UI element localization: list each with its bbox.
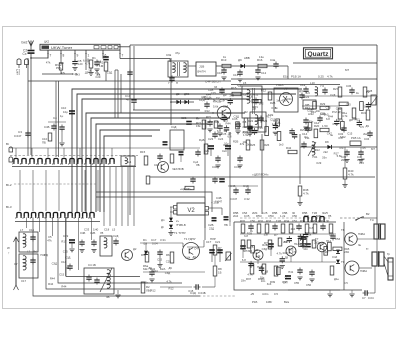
transistor T1 bbox=[183, 243, 200, 260]
coil L5k box bbox=[100, 236, 112, 256]
svg-text:R2B: R2B bbox=[304, 126, 310, 130]
resistor R53 mid bbox=[312, 240, 316, 248]
svg-text:Bt-2: Bt-2 bbox=[6, 183, 12, 187]
resistor R2L left edge bbox=[141, 282, 145, 293]
switch S2 contact 8 bbox=[68, 213, 72, 217]
svg-text:33n: 33n bbox=[322, 155, 327, 159]
carpet part bbox=[247, 125, 252, 127]
speaker Gr bbox=[388, 258, 393, 280]
svg-text:C3Д: C3Д bbox=[336, 107, 342, 111]
svg-text:10n: 10n bbox=[260, 275, 265, 279]
capacitor CA10 bbox=[320, 225, 325, 227]
svg-text:L7: L7 bbox=[20, 228, 24, 232]
svg-text:3n3: 3n3 bbox=[279, 142, 284, 146]
svg-text:R44: R44 bbox=[153, 269, 159, 273]
svg-text:ПЛР: ПЛР bbox=[210, 237, 216, 241]
resistor R51 mid bbox=[247, 240, 251, 248]
svg-text:ЦК2: ЦК2 bbox=[44, 40, 50, 44]
svg-text:Б2А: Б2А bbox=[160, 267, 165, 271]
svg-text:4.7k: 4.7k bbox=[235, 123, 241, 127]
capacitor C11 with ground bbox=[237, 71, 242, 73]
transistor T6 bbox=[286, 246, 296, 256]
svg-text:Quartz: Quartz bbox=[308, 51, 330, 58]
svg-text:Tr: Tr bbox=[366, 247, 369, 251]
svg-text:C2Б: C2Б bbox=[90, 231, 96, 235]
svg-text:C15: C15 bbox=[59, 61, 65, 65]
svg-text:R44: R44 bbox=[61, 285, 67, 289]
svg-text:C15: C15 bbox=[95, 63, 101, 67]
svg-text:-25: -25 bbox=[250, 292, 255, 296]
svg-text:R12: R12 bbox=[151, 288, 157, 292]
band bus wire 8 bbox=[104, 136, 152, 212]
V2 pin squares left bbox=[174, 206, 178, 210]
svg-text:C16: C16 bbox=[29, 228, 35, 232]
wire T2 base bbox=[195, 112, 217, 114]
resistor R19 bbox=[268, 92, 272, 100]
resistor R1e bbox=[338, 108, 342, 119]
svg-text:R12: R12 bbox=[355, 118, 361, 122]
svg-text:ЧЕХЛОВ: ЧЕХЛОВ bbox=[172, 167, 184, 171]
svg-text:C47: C47 bbox=[338, 136, 344, 140]
dashed rail Bt-2 bbox=[14, 183, 96, 185]
battery Bt terminal 2 bbox=[9, 157, 13, 162]
svg-text:C47: C47 bbox=[283, 280, 289, 284]
svg-text:UKW-Tuner: UKW-Tuner bbox=[51, 45, 73, 50]
resistor R25 R26 bottom of IF bbox=[246, 140, 250, 150]
jack X2 bbox=[25, 59, 29, 65]
svg-text:R36: R36 bbox=[318, 219, 324, 223]
carpet part bbox=[341, 122, 345, 130]
svg-text:C29: C29 bbox=[166, 260, 172, 264]
inductor L4 right of row1 bbox=[121, 156, 135, 166]
switch S1 contact 1 bbox=[14, 159, 18, 163]
svg-text:C4: C4 bbox=[53, 116, 57, 120]
svg-text:33n: 33n bbox=[241, 279, 246, 283]
svg-text:0.047: 0.047 bbox=[230, 197, 238, 201]
svg-text:C50: C50 bbox=[292, 214, 298, 218]
component row y180: capacitor 2 bbox=[212, 178, 217, 180]
svg-text:5.6k: 5.6k bbox=[185, 256, 191, 260]
wire volume route 3 bbox=[129, 160, 131, 215]
switch S2 contact 6 bbox=[53, 213, 57, 217]
carpet part bbox=[333, 247, 342, 250]
svg-text:П41: П41 bbox=[288, 270, 294, 274]
resistor R40 bbox=[344, 147, 346, 168]
svg-text:Д9: Д9 bbox=[285, 274, 289, 278]
svg-text:C3Д: C3Д bbox=[307, 109, 313, 113]
svg-text:C47: C47 bbox=[208, 120, 214, 124]
switch S1 contact 13 bbox=[110, 159, 114, 163]
svg-text:R27: R27 bbox=[333, 87, 339, 91]
svg-text:Д9: Д9 bbox=[192, 255, 196, 259]
capacitor C21b bbox=[219, 89, 224, 91]
switch S1 contact 12 bbox=[102, 159, 106, 163]
band bus wire 1 bbox=[72, 89, 302, 212]
switch row2 riser wires bbox=[19, 170, 21, 211]
diode D1e D1f bbox=[336, 250, 340, 254]
tuner block A1 bbox=[40, 44, 120, 50]
svg-text:47k: 47k bbox=[47, 238, 52, 242]
svg-text:C12: C12 bbox=[261, 71, 267, 75]
capacitor C13 mid left bbox=[131, 99, 136, 101]
svg-text:ДЧ: ДЧ bbox=[299, 89, 303, 93]
dashed battery rail bottom bbox=[140, 295, 236, 297]
capacitor C24 bbox=[212, 133, 217, 135]
svg-text:10Вт: 10Вт bbox=[266, 300, 273, 304]
svg-text:D8: D8 bbox=[325, 140, 329, 144]
capacitor C52 dark bbox=[268, 243, 274, 245]
band bus wire 7 bbox=[100, 130, 160, 212]
svg-text:47k: 47k bbox=[61, 71, 66, 75]
svg-text:22Д: 22Д bbox=[209, 227, 214, 231]
svg-text:R33: R33 bbox=[266, 219, 272, 223]
svg-text:C2B: C2B bbox=[226, 111, 232, 115]
svg-text:C52: C52 bbox=[292, 219, 298, 223]
svg-text:C15: C15 bbox=[157, 257, 163, 261]
svg-text:C29: C29 bbox=[219, 98, 225, 102]
svg-text:R?d: R?d bbox=[240, 219, 246, 223]
carpet part bbox=[236, 122, 240, 129]
wire bottom route 4 bbox=[46, 218, 140, 290]
svg-text:5.6k: 5.6k bbox=[213, 105, 219, 109]
diode D7 bbox=[169, 225, 173, 229]
switch row2 lower wires bbox=[26, 218, 28, 229]
svg-text:3н: 3н bbox=[358, 243, 362, 247]
svg-text:0.25: 0.25 bbox=[318, 75, 324, 79]
svg-text:6.8: 6.8 bbox=[83, 58, 87, 62]
capacitor C18 mid bbox=[157, 155, 162, 157]
svg-text:2+: 2+ bbox=[176, 219, 180, 223]
svg-text:C4a: C4a bbox=[270, 58, 276, 62]
svg-text:L5: L5 bbox=[112, 228, 116, 232]
svg-text:PPL: PPL bbox=[56, 66, 62, 70]
svg-text:4.7k: 4.7k bbox=[277, 251, 283, 255]
switch S1 contact 2 bbox=[22, 159, 26, 163]
jack X1 bbox=[17, 59, 21, 65]
svg-text:10μ: 10μ bbox=[63, 110, 68, 114]
svg-text:↑: ↑ bbox=[8, 251, 10, 255]
svg-text:АВВ: АВВ bbox=[244, 56, 250, 60]
resistor RA9 bbox=[313, 224, 317, 233]
carpet part bbox=[247, 127, 252, 129]
svg-text:T7: T7 bbox=[315, 237, 319, 241]
resistor R8 bbox=[213, 266, 217, 276]
band bus wire 2 bbox=[77, 94, 296, 212]
ground output 1 bbox=[329, 290, 331, 293]
capacitor C34 right bbox=[367, 132, 372, 134]
carpet part bbox=[259, 267, 264, 269]
svg-text:7.6: 7.6 bbox=[320, 84, 324, 88]
svg-text:C7: C7 bbox=[362, 296, 366, 300]
switch row1 riser wires bbox=[15, 148, 17, 158]
right vertical bus x377 bbox=[376, 45, 378, 225]
svg-text:23Ω: 23Ω bbox=[344, 250, 349, 254]
capacitor C9 under transformer bbox=[169, 77, 174, 79]
svg-text:C55: C55 bbox=[294, 281, 300, 285]
capacitor C7 output bbox=[364, 290, 366, 295]
svg-text:T1B: T1B bbox=[276, 219, 281, 223]
capacitor C47b electrolytic bbox=[285, 275, 291, 277]
svg-text:4.0m: 4.0m bbox=[262, 292, 269, 296]
carpet part bbox=[214, 121, 218, 128]
svg-text:1: 1 bbox=[88, 54, 90, 58]
svg-text:6.8: 6.8 bbox=[309, 226, 313, 230]
wire transformer to J1B bbox=[188, 65, 196, 67]
svg-text:C4F BB LH: C4F BB LH bbox=[205, 80, 220, 84]
svg-text:6.8: 6.8 bbox=[242, 258, 246, 262]
resistor R16 bbox=[258, 64, 267, 67]
svg-text:ЛБ: ЛБ bbox=[196, 163, 200, 167]
pot P2 bbox=[371, 95, 376, 105]
svg-text:4Б: 4Б bbox=[106, 295, 110, 299]
svg-text:1.2k: 1.2k bbox=[280, 214, 286, 218]
capacitor C2B top of mixer bbox=[186, 121, 192, 123]
svg-text:+ 21В: + 21В bbox=[211, 201, 219, 205]
svg-text:C30: C30 bbox=[212, 165, 218, 169]
svg-text:B2: B2 bbox=[366, 212, 370, 216]
svg-text:C3Д: C3Д bbox=[223, 105, 229, 109]
svg-text:C15: C15 bbox=[346, 102, 352, 106]
carpet part bbox=[280, 258, 285, 260]
capacitor C30 C31 ground row bbox=[215, 157, 220, 159]
svg-text:R5Я: R5Я bbox=[256, 214, 262, 218]
capacitor C5E dark bbox=[305, 243, 311, 245]
AF block border bbox=[234, 222, 340, 290]
capacitor CA7 bbox=[296, 225, 301, 227]
svg-text:В2а: В2а bbox=[284, 300, 289, 304]
wire top right row bbox=[216, 65, 288, 67]
svg-text:0.25: 0.25 bbox=[221, 132, 227, 136]
switch S2 contact 7 bbox=[61, 213, 65, 217]
svg-text:R17: R17 bbox=[266, 114, 272, 118]
svg-text:C15: C15 bbox=[359, 161, 365, 165]
svg-text:C15: C15 bbox=[326, 105, 332, 109]
capacitor C53 bbox=[330, 235, 335, 237]
svg-text:Д9: Д9 bbox=[285, 256, 289, 260]
switch S1 contact 8 bbox=[70, 159, 74, 163]
carpet part bbox=[366, 103, 371, 105]
svg-text:M7: M7 bbox=[345, 68, 349, 72]
capacitor C5B dark bbox=[240, 245, 246, 247]
svg-text:R2B: R2B bbox=[270, 101, 276, 105]
svg-text:1Б: 1Б bbox=[218, 271, 222, 275]
resistor RA3 bbox=[265, 224, 269, 233]
svg-text:C15: C15 bbox=[223, 118, 229, 122]
capacitor C12b bbox=[67, 265, 72, 267]
resistor RA2 bbox=[257, 224, 261, 233]
svg-text:10: 10 bbox=[36, 162, 40, 166]
svg-text:120: 120 bbox=[253, 248, 258, 252]
long vertical x230 bbox=[229, 132, 231, 222]
switch row2 lower rail bbox=[15, 221, 100, 223]
wire C19 rail bbox=[160, 286, 192, 288]
svg-text:2k2: 2k2 bbox=[242, 125, 247, 129]
svg-text:Д9: Д9 bbox=[223, 93, 227, 97]
svg-text:R1: R1 bbox=[92, 56, 96, 60]
switch B2 output bbox=[356, 217, 362, 220]
svg-text:R20: R20 bbox=[314, 124, 320, 128]
svg-text:П41: П41 bbox=[257, 265, 263, 269]
svg-text:C1a: C1a bbox=[300, 83, 306, 87]
carpet part bbox=[248, 262, 253, 264]
carpet part bbox=[289, 130, 294, 132]
svg-text:УЭ1А: УЭ1А bbox=[276, 83, 284, 87]
svg-text:13н: 13н bbox=[259, 55, 264, 59]
carpet part bbox=[339, 102, 348, 105]
svg-text:2k2: 2k2 bbox=[291, 227, 296, 231]
svg-text:2k2: 2k2 bbox=[363, 132, 368, 136]
svg-text:4.7k: 4.7k bbox=[348, 173, 354, 177]
wire T8 to transformer bbox=[357, 238, 374, 240]
svg-text:0.5: 0.5 bbox=[360, 125, 364, 129]
svg-text:5.6: 5.6 bbox=[306, 91, 310, 95]
svg-text:33: 33 bbox=[214, 85, 218, 89]
svg-text:П4БА: П4БА bbox=[358, 232, 365, 236]
svg-text:R37: R37 bbox=[246, 277, 252, 281]
svg-text:0.5: 0.5 bbox=[274, 292, 278, 296]
AF top rail wire bbox=[234, 221, 336, 223]
svg-text:2k2: 2k2 bbox=[323, 150, 328, 154]
capacitor C2 bbox=[28, 50, 35, 52]
wire pin7r to transformer bbox=[120, 58, 170, 60]
svg-text:J1B: J1B bbox=[199, 65, 204, 69]
svg-text:C3Д: C3Д bbox=[165, 271, 171, 275]
capacitor C5 with ground bbox=[74, 59, 76, 62]
mixer sub box bbox=[170, 130, 184, 150]
svg-text:«ЦЕЛ/Г»: «ЦЕЛ/Г» bbox=[180, 187, 192, 191]
svg-text:Д9: Д9 bbox=[168, 266, 172, 270]
svg-text:R42: R42 bbox=[286, 146, 292, 150]
carpet part bbox=[314, 129, 318, 138]
svg-text:51: 51 bbox=[17, 72, 21, 76]
capacitor C3 on antenna line bbox=[25, 132, 30, 134]
svg-text:R44: R44 bbox=[48, 282, 54, 286]
resistor R18 bbox=[232, 92, 241, 95]
switch S1 contact 10 bbox=[86, 159, 90, 163]
resistor R52 mid bbox=[278, 238, 282, 246]
svg-text:R12: R12 bbox=[253, 92, 259, 96]
svg-text:47k: 47k bbox=[339, 146, 344, 150]
capacitor C38 bbox=[301, 143, 306, 145]
IC V1 circle bbox=[274, 88, 298, 112]
svg-text:0.05: 0.05 bbox=[360, 146, 366, 150]
carpet part bbox=[252, 129, 257, 131]
svg-text:R?: R? bbox=[274, 233, 278, 237]
carpet part bbox=[303, 233, 308, 235]
svg-text:1Н0: 1Н0 bbox=[93, 228, 99, 232]
coil L2 box bbox=[19, 254, 38, 278]
resistor R5 bbox=[145, 252, 149, 262]
svg-text:4Б: 4Б bbox=[66, 266, 70, 270]
wire right mid rail bbox=[300, 146, 377, 148]
carpet part bbox=[228, 99, 233, 101]
capacitor C40 with ground bbox=[358, 151, 363, 153]
svg-text:3.32: 3.32 bbox=[244, 197, 250, 201]
svg-text:R12: R12 bbox=[168, 287, 174, 291]
svg-text:P1B 1A: P1B 1A bbox=[291, 75, 301, 79]
svg-text:Р1Б: Р1Б bbox=[252, 300, 257, 304]
svg-text:7: 7 bbox=[50, 54, 52, 58]
svg-text:R12: R12 bbox=[205, 109, 211, 113]
resistor R13 bbox=[222, 64, 231, 67]
resistor R45 col bbox=[303, 238, 307, 247]
svg-text:7: 7 bbox=[122, 54, 124, 58]
svg-text:Cx: Cx bbox=[23, 52, 27, 56]
capacitor C12 with ground bbox=[255, 69, 260, 71]
svg-text:bw2: bw2 bbox=[22, 41, 28, 45]
svg-text:2k2: 2k2 bbox=[259, 102, 264, 106]
capacitor C2B v2 bbox=[212, 217, 217, 219]
svg-text:C2c: C2c bbox=[222, 149, 228, 153]
svg-text:Д9: Д9 bbox=[365, 124, 369, 128]
svg-text:Π: Π bbox=[176, 81, 178, 85]
capacitor C10 with ground bbox=[221, 69, 226, 71]
capacitor C1a bbox=[303, 88, 308, 90]
resistor R44 col bbox=[268, 240, 272, 249]
svg-text:C47: C47 bbox=[194, 247, 200, 251]
svg-text:Дг: Дг bbox=[161, 225, 164, 229]
AF bottom row resistors bbox=[250, 264, 254, 274]
svg-text:C47: C47 bbox=[327, 132, 333, 136]
capacitor tantalum v2 bbox=[224, 216, 229, 218]
svg-text:C4 1Б: C4 1Б bbox=[88, 263, 96, 267]
svg-text:1μ: 1μ bbox=[60, 114, 64, 118]
svg-text:Д9: Д9 bbox=[349, 118, 353, 122]
resistor R21 bbox=[202, 120, 206, 129]
svg-text:33n: 33n bbox=[264, 233, 269, 237]
switch S2 contact 4 bbox=[39, 213, 43, 217]
svg-text:V2: V2 bbox=[187, 208, 195, 214]
IC V2 box bbox=[177, 203, 205, 215]
svg-text:M7: M7 bbox=[371, 147, 375, 151]
capacitor C4d bbox=[322, 89, 327, 91]
capacitor C1d bbox=[317, 117, 322, 119]
carpet part bbox=[298, 235, 303, 237]
resistor R2 bbox=[103, 56, 109, 58]
coil L7 box bbox=[19, 232, 38, 252]
svg-text:33n: 33n bbox=[309, 119, 314, 123]
svg-text:0.5: 0.5 bbox=[344, 281, 348, 285]
svg-text:C3Д: C3Д bbox=[262, 247, 268, 251]
carpet part bbox=[292, 134, 297, 136]
resistor R4a bbox=[48, 133, 52, 141]
wire cluster rail bbox=[48, 121, 66, 123]
resistor R6 bbox=[170, 252, 174, 263]
long vertical x300 bbox=[299, 134, 301, 184]
svg-text:0.047: 0.047 bbox=[14, 134, 22, 138]
wire pin1 drop bbox=[85, 59, 87, 71]
svg-text:0.25: 0.25 bbox=[262, 211, 268, 215]
svg-text:C15: C15 bbox=[59, 272, 65, 276]
svg-text:0.04: 0.04 bbox=[368, 296, 374, 300]
resistor R23 bbox=[258, 118, 262, 127]
svg-text:4ДБ: 4ДБ bbox=[237, 84, 243, 88]
component row y180: electrolytic bbox=[219, 178, 225, 180]
wire mid long rail y177 bbox=[150, 176, 375, 178]
svg-text:Д9: Д9 bbox=[325, 250, 329, 254]
svg-text:R12: R12 bbox=[261, 89, 267, 93]
svg-text:13: 13 bbox=[60, 162, 64, 166]
ground V2 diodes bbox=[170, 230, 172, 232]
antenna W1 bbox=[29, 41, 34, 47]
svg-text:R35: R35 bbox=[300, 219, 306, 223]
band switch dashed rail 1 bbox=[10, 155, 138, 157]
carpet part bbox=[357, 121, 362, 123]
svg-text:6.8: 6.8 bbox=[217, 129, 221, 133]
carpet part bbox=[360, 102, 364, 111]
wire mid small rail bbox=[228, 185, 258, 187]
pot RV-2 bbox=[60, 59, 62, 64]
